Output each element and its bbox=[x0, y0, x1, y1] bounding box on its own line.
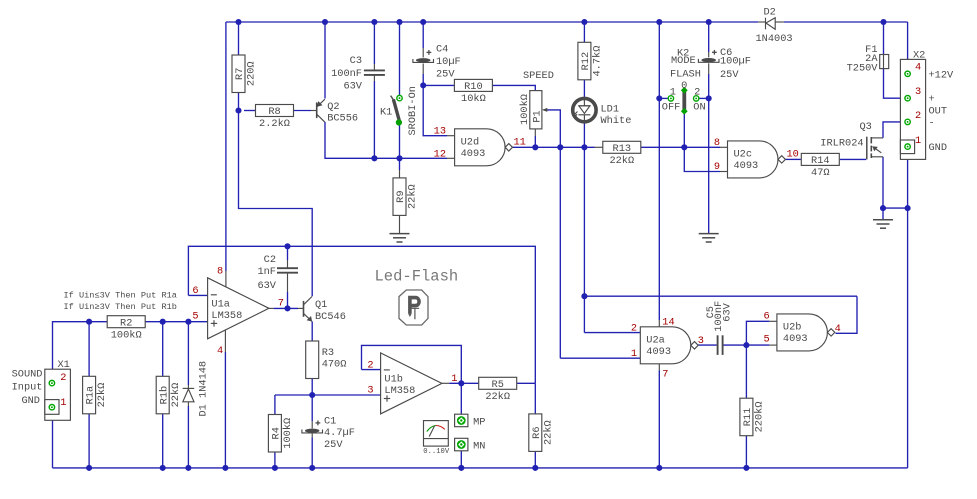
svg-text:U1b: U1b bbox=[384, 374, 403, 386]
pin labels U2d bbox=[434, 126, 526, 161]
wire R7 branch and base node bbox=[235, 22, 312, 296]
svg-text:22kΩ: 22kΩ bbox=[542, 420, 554, 445]
svg-text:12: 12 bbox=[434, 148, 446, 160]
resistor R4 bbox=[268, 415, 294, 453]
svg-text:7: 7 bbox=[278, 298, 284, 310]
logo octagon PT bbox=[399, 290, 428, 325]
svg-text:IRLR024: IRLR024 bbox=[820, 137, 863, 149]
wire pin3 node to U1b bbox=[312, 394, 380, 396]
wire K1 top lead bbox=[399, 22, 401, 95]
svg-text:SROBI-On: SROBI-On bbox=[407, 86, 419, 135]
potentiometer P1 bbox=[519, 70, 554, 129]
resistor R14 bbox=[801, 153, 839, 179]
svg-text:7: 7 bbox=[662, 368, 668, 380]
svg-text:GND: GND bbox=[21, 395, 40, 407]
svg-text:0: 0 bbox=[681, 80, 687, 92]
wire U2a pin7 to GND rail bbox=[658, 364, 660, 468]
svg-text:100nF: 100nF bbox=[331, 68, 362, 80]
svg-text:R4: R4 bbox=[271, 427, 283, 439]
svg-text:4: 4 bbox=[217, 345, 223, 357]
svg-text:2: 2 bbox=[60, 372, 66, 384]
wire C3 leads bbox=[373, 22, 375, 158]
svg-text:2: 2 bbox=[631, 322, 637, 334]
svg-text:U2a: U2a bbox=[646, 334, 665, 346]
svg-text:Q2: Q2 bbox=[327, 101, 339, 113]
transistor Q3 MOSFET bbox=[820, 121, 883, 159]
wire U1b feedback loop bbox=[362, 345, 462, 383]
resistor R5 bbox=[479, 377, 517, 403]
nand gate U2a bbox=[640, 327, 698, 364]
wire Q3 drain to X2 pin2 bbox=[883, 122, 905, 138]
svg-text:BC556: BC556 bbox=[327, 113, 358, 125]
svg-text:10µF: 10µF bbox=[436, 56, 461, 68]
wire K2 OFF pin from +12V drop bbox=[656, 22, 668, 327]
svg-text:1: 1 bbox=[451, 373, 457, 385]
svg-text:10kΩ: 10kΩ bbox=[461, 93, 486, 105]
svg-text:LD1: LD1 bbox=[601, 104, 620, 116]
capacitor C5 bbox=[705, 301, 734, 355]
connector X1 bbox=[12, 359, 71, 420]
svg-text:8: 8 bbox=[714, 137, 720, 149]
wire U2d output node net bbox=[512, 144, 603, 150]
pin labels U2a bbox=[631, 316, 704, 380]
wire +12V top rail bbox=[226, 21, 908, 23]
wire R1a leads bbox=[88, 322, 90, 468]
svg-text:+12V: +12V bbox=[929, 69, 955, 81]
capacitor C4 bbox=[413, 44, 461, 81]
wire Q2 base from R8 bbox=[293, 110, 317, 112]
svg-text:If Uin≥3V Then Put R1b: If Uin≥3V Then Put R1b bbox=[64, 302, 177, 312]
pin labels U2b bbox=[764, 310, 841, 345]
svg-text:63V: 63V bbox=[721, 302, 733, 321]
svg-text:100kΩ: 100kΩ bbox=[111, 329, 142, 341]
wire R3 to pin3 node bbox=[309, 379, 315, 398]
op-amp U1a bbox=[208, 278, 269, 339]
svg-text:25V: 25V bbox=[324, 439, 343, 451]
wire F1 to X2 pin3 bbox=[884, 69, 905, 99]
svg-text:4.7µF: 4.7µF bbox=[324, 427, 355, 439]
wire C5 to U2b pins 5 and 6 bbox=[723, 321, 777, 348]
svg-text:R7: R7 bbox=[234, 68, 246, 80]
wire C4 leads and node bbox=[420, 22, 426, 88]
wire K2 lever bottom lead bbox=[683, 113, 685, 147]
fuse F1 bbox=[847, 44, 889, 75]
svg-text:4093: 4093 bbox=[783, 333, 808, 345]
wire C6 leads down to ground bbox=[708, 22, 710, 234]
svg-text:If Uin≤3V Then Put R1a: If Uin≤3V Then Put R1a bbox=[64, 291, 177, 301]
pin labels U2c bbox=[714, 137, 799, 173]
svg-text:220kΩ: 220kΩ bbox=[754, 401, 766, 432]
svg-text:C1: C1 bbox=[324, 416, 336, 428]
svg-text:8: 8 bbox=[217, 266, 223, 278]
svg-text:10: 10 bbox=[787, 148, 799, 160]
svg-text:22kΩ: 22kΩ bbox=[485, 391, 510, 403]
wire K2 ON pin to C6 node bbox=[699, 95, 712, 101]
svg-text:0..10V: 0..10V bbox=[423, 448, 450, 456]
wire R14 to Q3 gate bbox=[840, 158, 866, 160]
wire X2 pin1 to ground node and bottom rail bbox=[907, 151, 909, 468]
svg-text:63V: 63V bbox=[343, 81, 362, 93]
wire C4 node to U2d pin13 bbox=[423, 85, 454, 135]
resistor R6 bbox=[529, 414, 555, 452]
connector X2 bbox=[900, 50, 954, 160]
svg-text:BC546: BC546 bbox=[315, 311, 346, 323]
wire R11 leads bbox=[745, 345, 747, 468]
svg-text:100kΩ: 100kΩ bbox=[282, 418, 294, 449]
svg-text:X1: X1 bbox=[58, 359, 70, 371]
svg-text:R13: R13 bbox=[613, 143, 632, 155]
svg-text:13: 13 bbox=[434, 126, 446, 138]
wire U1a pin6 entry bbox=[188, 294, 207, 296]
resistor R1b bbox=[156, 376, 182, 414]
wire P1 wiper to U2a pin1 drop bbox=[546, 110, 561, 358]
capacitor C6 bbox=[698, 47, 751, 81]
meter icon 0..10V bbox=[423, 421, 450, 457]
svg-text:22kΩ: 22kΩ bbox=[609, 155, 634, 167]
svg-text:LM358: LM358 bbox=[384, 385, 415, 397]
nand gate U2d bbox=[455, 129, 513, 166]
wire C4 node to R10 bbox=[423, 84, 454, 86]
svg-text:2: 2 bbox=[915, 110, 921, 122]
wire input net to U1a pin5 bbox=[53, 319, 208, 381]
led LD1 bbox=[573, 98, 632, 127]
wire X1 pin1 to bottom rail bbox=[52, 410, 54, 468]
svg-text:U2d: U2d bbox=[461, 136, 480, 148]
wire MP lead from U1b output bbox=[460, 383, 462, 414]
wire U1b output node bbox=[442, 380, 479, 386]
resistor R8 bbox=[256, 105, 294, 131]
svg-text:C3: C3 bbox=[350, 55, 362, 67]
svg-text:R11: R11 bbox=[742, 408, 754, 427]
pin labels U1b bbox=[367, 359, 457, 396]
pin labels X2 bbox=[915, 61, 921, 147]
wire R10 to P1 top bbox=[493, 85, 536, 90]
transistor Q1 bbox=[304, 297, 346, 323]
wire GND bottom rail bbox=[53, 467, 908, 469]
svg-text:R2: R2 bbox=[120, 317, 132, 329]
svg-text:Q3: Q3 bbox=[860, 121, 872, 133]
wire C2 node leads bbox=[284, 246, 290, 311]
text note on R1a R1b bbox=[64, 291, 177, 312]
nand gate U2b bbox=[777, 314, 835, 351]
svg-text:4.7kΩ: 4.7kΩ bbox=[592, 46, 604, 77]
diode D2 bbox=[756, 7, 793, 45]
resistor R13 bbox=[603, 141, 641, 167]
resistor R11 bbox=[740, 398, 766, 436]
wire R9 bottom lead to ground bbox=[399, 215, 401, 233]
capacitor C1 bbox=[302, 416, 355, 451]
wire R9 top lead bbox=[399, 158, 401, 178]
wire U1a feedback line (output net) bbox=[188, 243, 535, 383]
wire rail to X2 pin4 bbox=[907, 22, 909, 71]
svg-text:R10: R10 bbox=[464, 81, 483, 93]
wire Q3 source to ground node bbox=[880, 157, 911, 220]
wire R1b leads bbox=[162, 322, 164, 468]
resistor R3 bbox=[306, 341, 319, 379]
svg-text:4093: 4093 bbox=[461, 148, 486, 160]
wire U1a V+ pin8 drop (left vertical) bbox=[225, 22, 227, 287]
svg-text:2: 2 bbox=[694, 87, 700, 99]
svg-text:MN: MN bbox=[473, 440, 485, 452]
resistor R10 bbox=[454, 79, 492, 105]
svg-text:3: 3 bbox=[915, 86, 921, 98]
svg-text:ON: ON bbox=[693, 102, 705, 114]
svg-text:5: 5 bbox=[764, 334, 770, 346]
labels R3 bbox=[322, 347, 347, 371]
svg-text:3: 3 bbox=[367, 385, 373, 397]
svg-text:22kΩ: 22kΩ bbox=[170, 383, 182, 408]
svg-text:R1b: R1b bbox=[158, 386, 170, 405]
wire Q2 collector to U2d pin12 bbox=[325, 122, 455, 161]
wire R6 leads bbox=[534, 383, 536, 468]
wire Q1 emitter to R3 bbox=[311, 322, 313, 342]
resistor R12 bbox=[578, 42, 604, 80]
svg-text:SPEED: SPEED bbox=[523, 70, 554, 82]
svg-text:X2: X2 bbox=[913, 50, 925, 62]
svg-text:220Ω: 220Ω bbox=[246, 61, 258, 86]
svg-text:25V: 25V bbox=[436, 68, 455, 80]
svg-text:OUT: OUT bbox=[929, 105, 948, 117]
svg-text:25V: 25V bbox=[720, 69, 739, 81]
pin labels X1 bbox=[60, 372, 66, 409]
svg-text:K1: K1 bbox=[380, 106, 392, 118]
wire R4 branch bbox=[275, 395, 312, 468]
svg-text:R14: R14 bbox=[811, 155, 830, 167]
op-amp U1b bbox=[381, 353, 442, 414]
svg-text:U2b: U2b bbox=[783, 322, 802, 334]
svg-text:4093: 4093 bbox=[734, 160, 759, 172]
svg-text:1: 1 bbox=[631, 348, 637, 360]
wire MN lead to GND rail bbox=[460, 451, 462, 468]
capacitor C3 bbox=[331, 55, 385, 92]
wire P1 bottom lead bbox=[534, 129, 536, 147]
svg-text:5: 5 bbox=[192, 311, 198, 323]
svg-text:OFF: OFF bbox=[662, 102, 681, 114]
ground below R9 bbox=[390, 234, 410, 242]
wire U2a pin1 entry bbox=[560, 357, 640, 359]
svg-text:14: 14 bbox=[662, 316, 674, 328]
wire R12 to LD1 bbox=[583, 79, 585, 97]
svg-text:9: 9 bbox=[714, 161, 720, 173]
wire U1a output to Q1 base bbox=[269, 307, 304, 309]
svg-text:3: 3 bbox=[698, 335, 704, 347]
svg-text:SOUND: SOUND bbox=[12, 369, 43, 381]
svg-text:C2: C2 bbox=[264, 254, 276, 266]
svg-text:4093: 4093 bbox=[646, 346, 671, 358]
svg-text:R5: R5 bbox=[492, 379, 504, 391]
switch K2 bbox=[662, 47, 706, 114]
wire R5 to R6 node bbox=[516, 382, 535, 384]
svg-text:1: 1 bbox=[915, 135, 921, 147]
diode D1 bbox=[183, 361, 210, 417]
pin labels U1a bbox=[192, 266, 284, 357]
svg-text:R6: R6 bbox=[531, 426, 543, 438]
wire U2b output to feedback corner bbox=[836, 296, 858, 333]
resistor R2 bbox=[107, 316, 145, 342]
svg-text:47Ω: 47Ω bbox=[811, 167, 830, 179]
svg-text:2: 2 bbox=[367, 359, 373, 371]
svg-text:22kΩ: 22kΩ bbox=[407, 184, 419, 209]
wire U1a pin4 to GND rail bbox=[224, 330, 226, 468]
svg-text:U1a: U1a bbox=[211, 298, 230, 310]
wire R13 to U2c inputs bbox=[641, 144, 728, 171]
capacitor C2 bbox=[257, 254, 298, 292]
svg-text:1: 1 bbox=[670, 87, 676, 99]
svg-text:C4: C4 bbox=[436, 44, 448, 56]
svg-text:1N4003: 1N4003 bbox=[756, 33, 793, 45]
title Led-Flash bbox=[375, 268, 459, 286]
svg-text:D2: D2 bbox=[764, 7, 776, 19]
svg-text:-: - bbox=[929, 117, 935, 129]
transistor Q2 bbox=[317, 99, 358, 124]
svg-text:R1a: R1a bbox=[85, 386, 97, 405]
svg-text:D1 1N4148: D1 1N4148 bbox=[197, 361, 209, 417]
svg-text:6: 6 bbox=[192, 285, 198, 297]
svg-text:R8: R8 bbox=[268, 106, 280, 118]
svg-text:6: 6 bbox=[764, 310, 770, 322]
svg-text:470Ω: 470Ω bbox=[322, 359, 347, 371]
svg-text:63V: 63V bbox=[257, 280, 276, 292]
measure point MP bbox=[455, 414, 486, 428]
wire C1 leads bbox=[311, 395, 313, 468]
svg-text:4: 4 bbox=[915, 61, 921, 73]
svg-text:1nF: 1nF bbox=[257, 266, 276, 278]
wire U2a output to C5 bbox=[697, 344, 717, 346]
wire K1 bottom lead to node bbox=[399, 125, 401, 158]
svg-text:Input: Input bbox=[12, 382, 43, 394]
wire U2c output to R14 bbox=[786, 158, 801, 160]
svg-text:R3: R3 bbox=[322, 347, 334, 359]
ground below Q3 source / X2 pin1 bbox=[873, 220, 893, 228]
junction dots on +12V rail bbox=[235, 19, 886, 25]
svg-text:Led-Flash: Led-Flash bbox=[375, 268, 459, 286]
junction dots on GND rail bbox=[86, 465, 749, 471]
resistor R1a bbox=[83, 376, 109, 414]
svg-text:MODE: MODE bbox=[671, 55, 696, 67]
wire Q2 emitter from rail bbox=[324, 22, 326, 99]
measure point MN bbox=[455, 438, 486, 452]
svg-text:100kΩ: 100kΩ bbox=[519, 94, 531, 125]
svg-text:Q1: Q1 bbox=[315, 299, 327, 311]
svg-text:1: 1 bbox=[60, 397, 66, 409]
wire R12 top lead bbox=[583, 22, 585, 42]
resistor R9 bbox=[393, 178, 419, 216]
nand gate U2c bbox=[728, 141, 786, 178]
svg-text:+: + bbox=[929, 94, 935, 106]
svg-text:White: White bbox=[601, 115, 632, 127]
svg-text:2.2kΩ: 2.2kΩ bbox=[259, 118, 290, 130]
switch K1 bbox=[380, 86, 419, 135]
svg-text:FLASH: FLASH bbox=[670, 69, 701, 81]
svg-text:GND: GND bbox=[929, 142, 948, 154]
svg-text:4: 4 bbox=[835, 323, 841, 335]
svg-text:R9: R9 bbox=[395, 190, 407, 202]
svg-text:P1: P1 bbox=[531, 110, 543, 122]
svg-text:T250V: T250V bbox=[847, 63, 879, 75]
svg-text:R12: R12 bbox=[580, 52, 592, 71]
resistor R7 bbox=[232, 55, 258, 93]
svg-text:100µF: 100µF bbox=[720, 56, 751, 68]
svg-text:U2c: U2c bbox=[734, 149, 753, 161]
ground below C6 bbox=[699, 234, 719, 242]
svg-text:11: 11 bbox=[514, 136, 526, 148]
svg-text:LM358: LM358 bbox=[211, 310, 242, 322]
svg-text:22kΩ: 22kΩ bbox=[96, 383, 108, 408]
svg-text:MP: MP bbox=[473, 416, 485, 428]
wire F1 from rail bbox=[883, 22, 885, 55]
wire LD1 cathode down to U2a pin2 drop bbox=[581, 123, 857, 332]
wire D1 leads bbox=[187, 322, 189, 468]
